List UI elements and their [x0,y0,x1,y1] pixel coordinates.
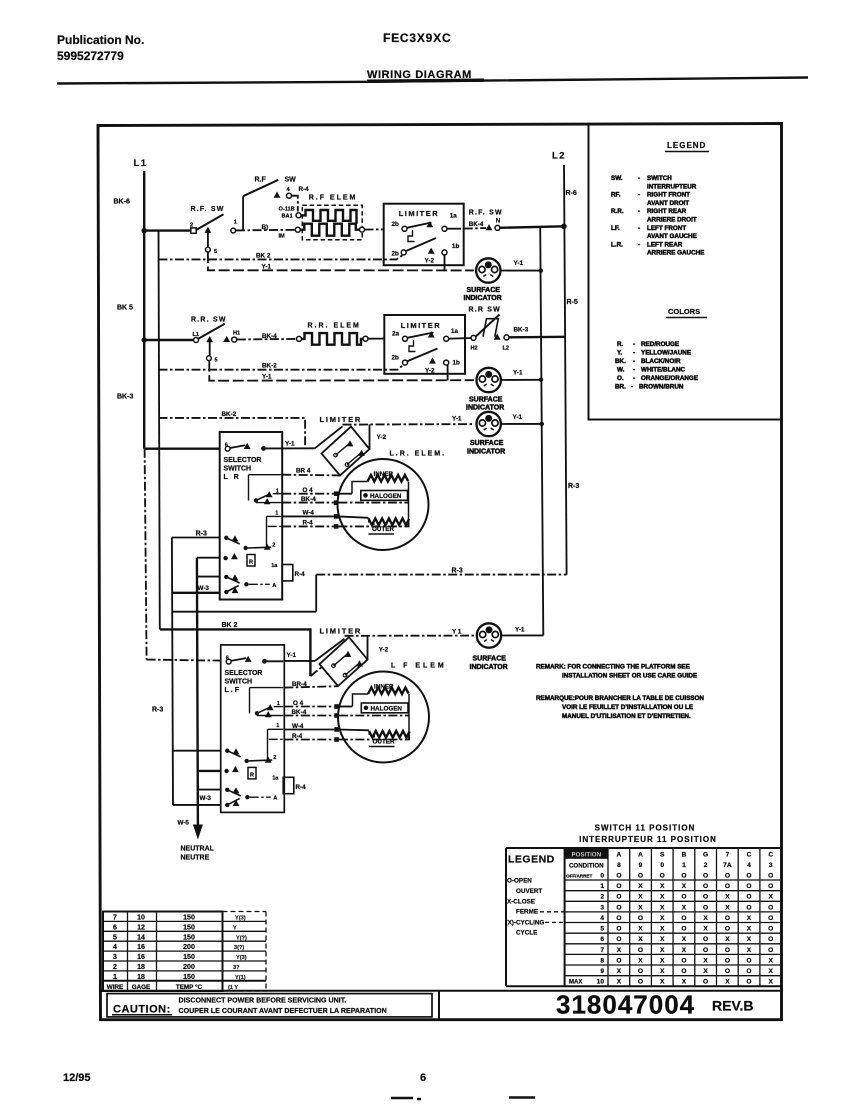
wire L1 row to selector 2 [147,660,221,661]
svg-text:INSTALLATION SHEET OR USE CARE: INSTALLATION SHEET OR USE CARE GUIDE [562,673,697,680]
svg-text:CAUTION:: CAUTION: [113,1004,171,1016]
svg-text:1b: 1b [452,243,460,250]
svg-text:Y-2: Y-2 [425,258,435,265]
switch pilot arrow [274,192,281,198]
svg-text:Y-1: Y-1 [514,260,524,267]
limiter 1 top blade [407,223,432,228]
lamp surface indicator 4 [477,623,501,647]
limiter 2 contact 1b [444,360,449,365]
svg-text:Y-1: Y-1 [513,414,523,421]
limiter 1 link staircase [408,230,415,242]
wire BK-3 to L2 bus [509,336,565,339]
svg-text:NEUTRE: NEUTRE [181,855,210,862]
wire limiter2 exit [449,337,471,340]
wire table columns [128,912,223,992]
wire indicator2 to bus [501,379,541,381]
svg-text:Y-1: Y-1 [452,415,462,422]
svg-text:W-3: W-3 [200,795,212,802]
svg-text:IM: IM [279,234,286,240]
header rule [57,78,808,84]
svg-text:Y 1: Y 1 [452,629,462,636]
svg-text:AVANT GAUCHE: AVANT GAUCHE [647,233,697,240]
wire O 4 [282,493,334,495]
selector switch L.F. internals [224,655,283,807]
svg-text:0: 0 [600,872,604,879]
svg-text:ORANGE/ORANGE: ORANGE/ORANGE [641,375,698,382]
limiter 2 top blade [407,333,433,338]
svg-text:3: 3 [113,954,117,961]
wire BK-2 row circuit3 [159,418,306,448]
caution divider line [100,990,782,992]
svg-text:L F ELEM: L F ELEM [391,663,447,670]
contact H1 [232,337,237,342]
svg-text:B): B) [262,224,269,231]
svg-text:R-5: R-5 [567,299,578,306]
wire row1 main L1 to switch [146,229,191,231]
wire bottom row selector2 [173,804,221,806]
limiter 2 box [384,315,465,374]
svg-text:BLACK/NOIR: BLACK/NOIR [641,358,681,365]
svg-text:5: 5 [215,358,218,364]
svg-text:2: 2 [600,894,604,901]
svg-text:O.: O. [617,375,624,382]
svg-text:-: - [633,341,635,348]
svg-text:R.F: R.F [255,177,267,184]
wire L2 vertical / R-6 R-5 R-3 feed [564,165,567,575]
wire neutral to selector2 [198,770,221,772]
svg-text:-: - [633,350,635,357]
svg-text:18: 18 [137,974,145,981]
svg-text:Y-2: Y-2 [425,368,435,375]
wire R-3 step down [315,575,317,612]
switch R.R. SW blade [198,324,225,339]
svg-text:Y-2: Y-2 [377,434,387,441]
svg-text:Y: Y [233,925,237,931]
svg-text:Y-1: Y-1 [287,652,297,659]
svg-text:1b: 1b [453,360,461,367]
svg-text:INDICATOR: INDICATOR [467,449,505,456]
svg-text:10: 10 [597,979,605,986]
wire wiper drop circuit2 [209,340,211,356]
node element top entry [296,213,301,218]
svg-text:7: 7 [600,947,604,954]
svg-text:BK-2: BK-2 [222,411,237,418]
svg-text:6: 6 [600,936,604,943]
svg-text:4: 4 [600,915,604,922]
wire W-4 [282,515,334,517]
svg-text:LEFT FRONT: LEFT FRONT [647,225,686,232]
svg-text:R-4: R-4 [303,520,314,527]
svg-text:BK-3: BK-3 [117,394,133,401]
svg-text:L.F: L.F [225,687,242,694]
svg-text:LIMITER: LIMITER [320,415,363,424]
svg-text:LIMITER: LIMITER [399,209,440,218]
wire pilot to element top [292,196,298,212]
svg-text:Y(1): Y(1) [235,975,246,981]
wire table rows [103,921,266,971]
svg-text:1: 1 [234,220,237,226]
wire R-3 row to selector [172,537,220,539]
svg-text:5: 5 [600,926,604,933]
svg-text:REV.B: REV.B [712,998,754,1014]
resistor R.F. ELEM bottom winding [300,224,359,236]
svg-text:1: 1 [113,974,117,981]
wire selector exit to limiter3 [282,447,315,449]
wire table frame [103,912,223,992]
svg-text:L.R. ELEM.: L.R. ELEM. [390,451,447,458]
wire R-4 [282,525,334,527]
svg-text:R.R SW: R.R SW [469,307,501,314]
header POSITION reversed [565,848,608,859]
svg-text:9: 9 [600,968,604,975]
wire neutral vertical [197,558,198,826]
svg-text:SWITCH: SWITCH [647,175,672,182]
wire BK 2 heavy row [160,629,311,676]
svg-text:3?: 3? [233,965,240,971]
svg-text:6: 6 [113,924,117,931]
limiter 1 contact 1a [442,226,447,231]
svg-text:MANUEL D'UTILISATION ET D'ENTR: MANUEL D'UTILISATION ET D'ENTRETIEN. [562,713,691,720]
svg-text:L.R.: L.R. [611,241,623,248]
wire R-4 row4 [284,739,334,741]
svg-text:INTERRUPTEUR 11 POSITION: INTERRUPTEUR 11 POSITION [579,835,717,844]
element L.F. coil assembly [338,672,429,763]
wire element to limiter 2 [368,338,385,340]
svg-text:BK-4: BK-4 [469,221,484,228]
limiter 2 bottom blade [407,349,437,362]
contact L2 [504,335,509,340]
svg-text:R.F. SW: R.F. SW [469,210,503,217]
wire BR 4 [282,474,340,477]
svg-text:DISCONNECT POWER BEFORE SERVIC: DISCONNECT POWER BEFORE SERVICING UNIT. [179,996,347,1004]
limiter 1 contact 1b [442,250,447,255]
switch pilot blade [243,180,278,196]
svg-text:O-OPEN: O-OPEN [507,878,532,885]
wire diagonal entry to limiter3 [315,426,343,448]
svg-text:O 4: O 4 [303,487,314,494]
wire R-3 row to selector2 [173,750,221,752]
svg-text:5: 5 [214,249,217,255]
wire indicator4 to bus corner [501,634,543,636]
svg-text:2b: 2b [392,221,400,228]
switch pilot contact 4 [287,193,292,198]
limiter 2 contact 1a [444,336,449,341]
column grid [608,848,760,986]
wire limiter1 1b drop [444,255,446,270]
wire O 4 row4 [284,706,334,708]
svg-text:R.R.: R.R. [611,208,624,215]
wire row3 top to indicator [343,423,475,426]
svg-text:RED/ROUGE: RED/ROUGE [641,341,679,348]
wire R-3 horizontal main [316,574,566,576]
wire selector2 exit to limiter4 [284,660,315,662]
svg-text:W-4: W-4 [292,723,304,730]
svg-text:12: 12 [137,924,145,931]
svg-text:2a: 2a [392,330,400,337]
wire contact 5 drop [207,231,209,247]
main diagram border [98,124,782,1020]
svg-text:L1: L1 [193,332,200,338]
svg-text:R-4: R-4 [295,571,306,578]
svg-text:X-CLOSE: X-CLOSE [507,899,535,906]
wire L1 vertical [143,171,145,449]
legend entries [611,175,704,257]
svg-text:L2: L2 [552,151,566,162]
lamp surface indicator 3 [477,412,501,436]
svg-text:INDICATOR: INDICATOR [466,405,504,412]
svg-text:BK-4: BK-4 [292,709,307,716]
wire W-3 row [197,576,220,578]
svg-text:H1: H1 [233,331,240,337]
svg-text:-: - [638,208,640,215]
limiter 1 bottom blade [406,238,436,251]
svg-text:COLORS: COLORS [668,307,700,316]
svg-text:W-3: W-3 [198,585,210,592]
wire row2 dash BK-4 to element [237,338,297,341]
svg-text:FEC3X9XC: FEC3X9XC [383,31,451,45]
switch R.R. SW wiper arrow [206,336,213,342]
node element bottom entry [295,227,300,232]
wire indicator1 to bus [501,270,541,272]
svg-text:SURFACE: SURFACE [467,287,501,294]
svg-text:VOIR LE FEUILLET D'INSTALLATIO: VOIR LE FEUILLET D'INSTALLATION OU LE [562,704,693,711]
svg-text:LIMITER: LIMITER [401,321,442,330]
wire BR-4 row 4 [284,686,338,687]
svg-text:FERME: FERME [516,909,538,916]
element L.R. coil assembly [338,459,429,550]
selector switch L.R. box [220,432,283,600]
svg-text:Y.: Y. [617,350,623,357]
svg-text:4: 4 [113,944,117,951]
svg-text:ARRIERE DROIT: ARRIERE DROIT [647,217,697,224]
svg-text:R.F. SW: R.F. SW [191,206,225,213]
wire feed up to pilot switch [242,196,244,230]
svg-text:1: 1 [600,883,604,890]
svg-text:BK 2: BK 2 [256,252,271,259]
svg-text:RF.: RF. [611,192,621,199]
element 2 taps [334,704,339,709]
svg-text:SURFACE: SURFACE [469,397,503,404]
svg-text:NEUTRAL: NEUTRAL [181,846,215,853]
svg-text:Y(?): Y(?) [236,935,247,941]
svg-text:SELECTOR: SELECTOR [224,457,262,464]
wire Y-1 collector bus [540,226,543,635]
row grid [565,880,782,976]
svg-text:INTERRUPTEUR: INTERRUPTEUR [647,183,697,190]
svg-text:SURFACE: SURFACE [470,440,504,447]
contact H2 [471,335,476,340]
svg-text:R-3: R-3 [568,483,579,490]
wire N to L2 [500,226,564,228]
wire limiter2 1b drop [447,365,449,381]
junction L1 row2 [142,337,147,342]
switch R.F. SW blade [197,214,224,230]
svg-text:3: 3 [600,904,604,911]
junction row1 at L2 [561,224,567,230]
svg-text:LEGEND: LEGEND [667,141,706,150]
svg-text:-: - [633,375,635,382]
contact 1 [231,228,236,233]
svg-text:BR 4: BR 4 [296,468,311,475]
footer scan marks [391,1098,535,1100]
legend box [589,125,782,420]
svg-text:Y-1: Y-1 [513,369,523,376]
svg-text:-: - [638,225,640,232]
svg-text:Y-1: Y-1 [262,263,272,270]
svg-text:BK 5: BK 5 [117,305,133,312]
svg-text:INDICATOR: INDICATOR [464,295,502,302]
svg-text:SWITCH: SWITCH [225,679,253,686]
breaker blade [476,315,500,337]
contact L2 arrow [494,334,501,340]
wire BK-4 [282,502,334,504]
svg-text:5: 5 [113,934,117,941]
svg-text:O-11B: O-11B [279,206,295,212]
limiter 4 diamond [320,637,368,686]
svg-text:RIGHT REAR: RIGHT REAR [647,208,687,215]
svg-text:LEFT REAR: LEFT REAR [647,241,683,248]
R-4 notch resistor [282,565,293,581]
svg-text:-: - [638,192,640,199]
contact N [495,225,500,230]
svg-text:REMARK: FOR CONNECTING THE PLA: REMARK: FOR CONNECTING THE PLATFORM SEE [536,664,690,671]
wire Y-1 row circuit1 [208,252,474,270]
wire row3 heavy feed [145,448,220,450]
svg-text:R-6: R-6 [566,190,577,197]
node element entry [297,336,302,341]
wire bottom row heavy [172,592,220,594]
svg-text:2: 2 [113,964,117,971]
svg-text:200: 200 [183,964,195,971]
svg-text:BR.: BR. [615,384,626,391]
lamp surface indicator 1 [476,258,500,282]
svg-text:R-4: R-4 [296,784,307,791]
svg-text:SW.: SW. [611,175,623,182]
svg-text:Publication No.: Publication No. [57,33,144,47]
svg-text:REMARQUE:POUR BRANCHER LA TABL: REMARQUE:POUR BRANCHER LA TABLE DE CUISS… [536,695,704,702]
svg-text:200: 200 [183,944,195,951]
junction L1 row1 [142,228,147,233]
svg-text:5995272779: 5995272779 [57,49,124,63]
svg-text:INDICATOR: INDICATOR [470,664,508,671]
svg-text:3(?): 3(?) [234,945,244,951]
selector switch L.R. internals [223,443,282,595]
svg-text:-: - [631,384,633,391]
svg-text:LF.: LF. [611,225,620,232]
svg-text:AVANT DROIT: AVANT DROIT [647,200,689,207]
svg-text:Y-2: Y-2 [379,647,389,654]
svg-text:MAX: MAX [569,980,582,986]
svg-text:R-4: R-4 [299,186,310,193]
wire diag into limiter 4 [310,667,322,677]
svg-text:SWITCH 11 POSITION: SWITCH 11 POSITION [595,824,696,833]
wire row2 main [146,339,194,341]
wire R-3 left riser [172,538,173,805]
svg-text:BK 2: BK 2 [222,622,238,629]
svg-text:BROWN/BRUN: BROWN/BRUN [639,384,684,391]
svg-text:YELLOW/JAUNE: YELLOW/JAUNE [641,350,691,357]
svg-text:8: 8 [600,957,604,964]
wire left vertical bus 2 [159,231,160,630]
svg-text:150: 150 [183,924,195,931]
wire BK 2 row circuit1 [159,255,404,260]
svg-text:BK.: BK. [615,358,626,365]
svg-text:2b: 2b [392,355,400,362]
breaker body parallelogram [483,319,498,337]
wire table notes column scribbles [228,916,247,992]
svg-text:R.R. SW: R.R. SW [191,317,227,324]
svg-text:W.: W. [617,367,625,374]
wire R-3 lower row [172,611,316,613]
svg-text:12/95: 12/95 [63,1072,91,1084]
R-4 notch resistor 2 [283,777,294,793]
svg-text:N: N [496,217,501,224]
wire diagonal entry limiter4 [315,639,345,661]
svg-text:318047004: 318047004 [556,990,695,1020]
svg-text:Y-1: Y-1 [285,440,295,447]
svg-text:1a: 1a [450,213,458,220]
svg-text:OFF/ARRET: OFF/ARRET [566,873,592,878]
svg-text:CYCLE: CYCLE [516,930,537,937]
wire indicator3 to bus [501,423,542,425]
wire Y-2 riser 4 [367,636,369,660]
svg-text:-: - [638,175,640,182]
resistor R.F. ELEM top winding [301,210,357,224]
svg-text:H2: H2 [471,346,478,352]
svg-text:SW: SW [285,177,297,184]
svg-text:SELECTOR: SELECTOR [225,670,263,677]
svg-text:R-4: R-4 [292,733,303,740]
lamp surface indicator 2 [477,368,501,392]
svg-text:BK-4: BK-4 [262,333,277,340]
resistor R.R. ELEM winding [302,333,364,345]
svg-text:O 4: O 4 [293,700,304,707]
svg-text:W-5: W-5 [178,820,190,827]
wire BK-4 row4 [284,715,334,717]
svg-text:-: - [633,358,635,365]
svg-text:R.R. ELEM: R.R. ELEM [308,323,361,330]
svg-text:Y(3): Y(3) [235,916,246,922]
wire row1 dash to element [236,229,295,232]
switch R.F. SW wiper arrow [205,227,212,233]
svg-text:BK-2: BK-2 [262,363,277,370]
svg-text:(X)-CYCLING: (X)-CYCLING [506,920,545,927]
svg-text:OUVERT: OUVERT [516,888,542,895]
wire BK-2 row circuit2 [159,365,404,370]
wire W-3 row selector2 [198,789,221,791]
svg-text:SWITCH: SWITCH [224,466,252,473]
svg-text:6: 6 [420,1072,426,1084]
svg-text:150: 150 [183,974,195,981]
svg-text:R-3: R-3 [196,530,207,537]
svg-text:2b: 2b [392,251,400,258]
switch R.R. SW contact L1 [194,338,199,343]
wire W-4 row4 [284,729,334,731]
selector switch L.F. box [221,645,285,813]
svg-text:16: 16 [137,944,145,951]
svg-text:W-4: W-4 [303,510,315,517]
svg-text:WHITE/BLANC: WHITE/BLANC [641,367,686,374]
svg-text:-: - [633,367,635,374]
svg-text:ARRIERE GAUCHE: ARRIERE GAUCHE [647,250,704,257]
wire limiter1 exit to RF pilot contact [447,228,461,230]
contact H1 arrow [223,336,230,342]
colors entries [615,341,698,391]
svg-text:L R: L R [224,474,241,481]
svg-text:CONDITION: CONDITION [569,862,604,869]
svg-text:BA1: BA1 [282,213,293,219]
svg-text:R-3: R-3 [452,567,463,574]
